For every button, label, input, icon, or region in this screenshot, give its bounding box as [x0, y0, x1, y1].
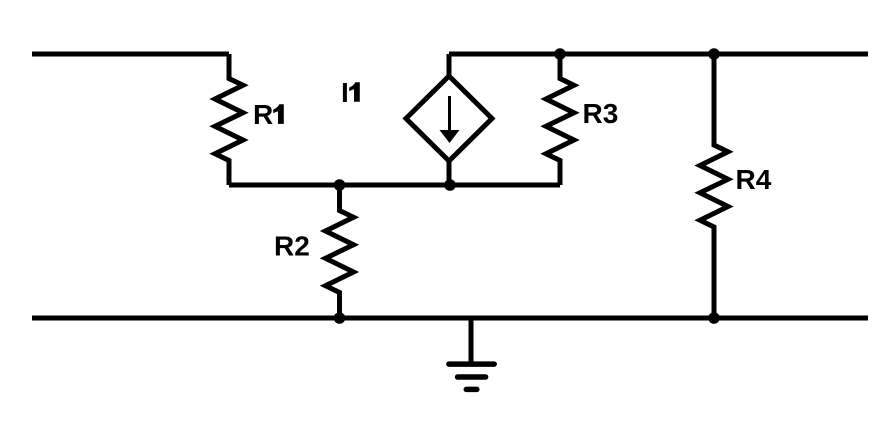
resistor R3 [546, 54, 618, 185]
wire top-right rail [449, 52, 868, 57]
svg-text:I: I [341, 77, 349, 108]
ground [449, 318, 494, 389]
svg-text:R3: R3 [583, 98, 619, 129]
svg-text:R4: R4 [736, 164, 772, 195]
resistor R1 [215, 54, 284, 185]
node R2 bottom junction [334, 312, 346, 324]
node R4 bottom junction [708, 312, 720, 324]
svg-text:R: R [253, 99, 273, 130]
node R4 top junction [708, 48, 720, 60]
node R3 top junction [554, 48, 566, 60]
current source I1 [341, 54, 492, 185]
svg-text:R2: R2 [274, 231, 310, 262]
wire bottom rail [32, 316, 868, 321]
wire top-left rail [32, 52, 229, 57]
resistor R2 [274, 185, 354, 318]
node R2 top junction [334, 179, 346, 191]
resistor R4 [700, 54, 772, 318]
wire middle rail [229, 183, 560, 188]
node I1 bottom junction [444, 179, 456, 191]
